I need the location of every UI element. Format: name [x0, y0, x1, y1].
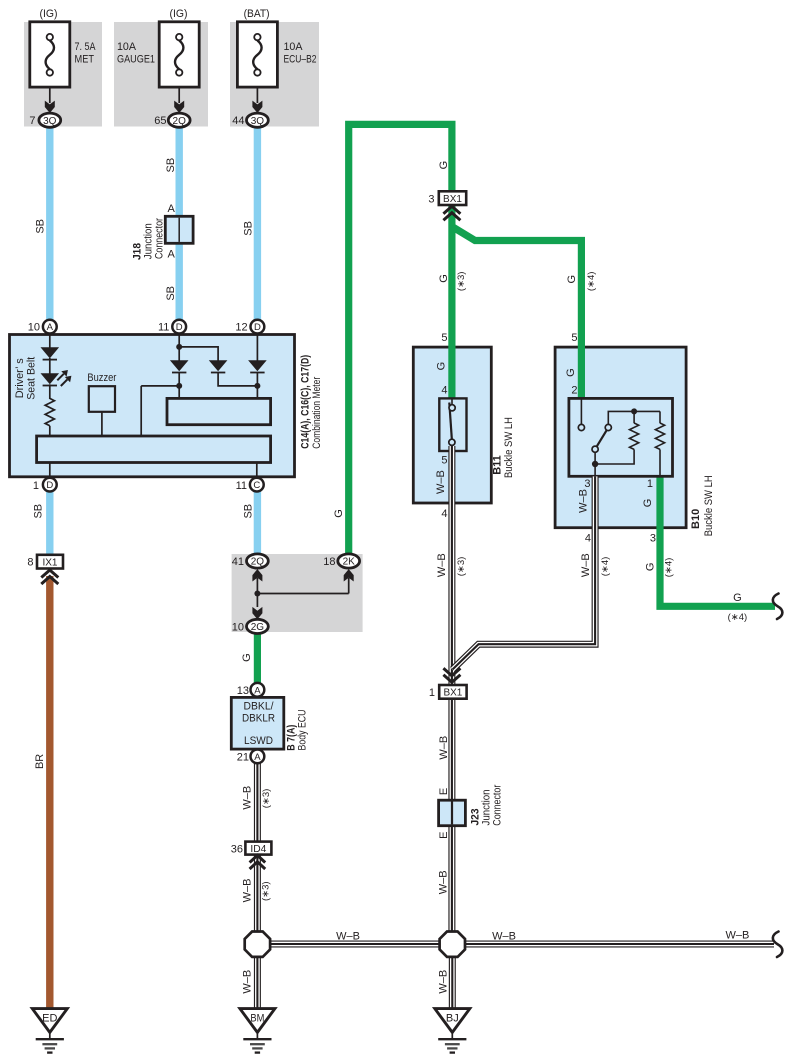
svg-text:G: G — [438, 161, 450, 170]
svg-text:LSWD: LSWD — [244, 735, 273, 747]
pin number 7 — [29, 115, 35, 127]
svg-text:2K: 2K — [343, 557, 356, 568]
svg-text:BM: BM — [250, 1012, 264, 1024]
svg-text:Buckle SW LH: Buckle SW LH — [503, 417, 515, 478]
node octagon 1 — [245, 932, 270, 957]
svg-text:G: G — [733, 592, 742, 604]
pin number 36 — [231, 843, 243, 855]
svg-text:4: 4 — [441, 508, 447, 520]
wire G branch to buckle switch B10 pin 2 — [452, 227, 582, 400]
svg-text:G: G — [241, 653, 253, 662]
label W-B above octagon 2 — [438, 870, 450, 894]
label Driver's Seat Belt — [14, 357, 37, 400]
svg-text:SB: SB — [243, 504, 255, 519]
pin number 4 below B10 — [585, 533, 591, 545]
pin number 21 — [237, 751, 249, 763]
svg-text:GAUGE1: GAUGE1 — [117, 54, 155, 66]
svg-text:21: 21 — [237, 751, 249, 763]
label G wire 2K — [333, 509, 345, 518]
svg-text:(∗4): (∗4) — [664, 558, 675, 578]
label DBKL DBKLR LSWD — [242, 701, 275, 748]
svg-text:B11: B11 — [492, 455, 504, 475]
connector 3Q oval fuse F3 — [247, 113, 269, 127]
label W-B (*3) above ID4 — [242, 786, 273, 810]
wire G from connector 2K up and over to connector BX1 pin 3 — [349, 124, 452, 554]
label 7.5A MET — [75, 41, 97, 66]
diode D1 seat belt lamp — [41, 347, 60, 373]
pin number 41 — [232, 556, 244, 568]
ground ED — [32, 1009, 67, 1053]
label A above J18 — [167, 203, 175, 215]
pin number 3 BX1 — [428, 193, 434, 205]
svg-text:B 7(A): B 7(A) — [285, 724, 297, 750]
wire SB from fuse MET to combination meter pin 10 — [46, 127, 53, 320]
svg-text:1: 1 — [429, 687, 435, 699]
svg-text:18: 18 — [323, 556, 335, 568]
junction connector J23 — [439, 800, 466, 826]
label (BAT) fuse F3 — [244, 8, 270, 20]
svg-text:D: D — [176, 322, 183, 333]
svg-text:36: 36 — [231, 843, 243, 855]
wire G from B10 pin 1 to right edge — [660, 476, 775, 606]
wire SB from fuse ECU-B2 to combination meter pin 12 — [254, 127, 261, 320]
svg-text:(∗4): (∗4) — [728, 612, 748, 623]
pin 21 A circle — [251, 750, 265, 764]
label W-B horizontal right — [725, 930, 749, 942]
svg-text:3Q: 3Q — [43, 116, 57, 127]
svg-text:(∗4): (∗4) — [586, 272, 597, 292]
wire W-B horizontal from node octagon 2 to right edge — [463, 941, 774, 948]
svg-text:G: G — [642, 499, 654, 508]
svg-text:10A: 10A — [117, 41, 137, 53]
svg-text:BX1: BX1 — [443, 688, 462, 699]
label C14 C16 C17 Combination Meter — [300, 355, 324, 449]
svg-text:2Q: 2Q — [251, 557, 265, 568]
label 10A ECU-B2 — [284, 41, 317, 66]
junction internal wiring 2Q to 2K to 2G — [252, 569, 353, 619]
pin number 5 B10 — [571, 332, 577, 344]
chevron below IX1 — [41, 570, 58, 584]
svg-text:Combination Meter: Combination Meter — [311, 377, 323, 449]
svg-text:G: G — [436, 362, 448, 371]
meter internal module box — [167, 398, 271, 424]
svg-text:G: G — [333, 509, 345, 518]
pin number 12 meter — [235, 322, 247, 334]
B11 switch inner box — [439, 398, 466, 451]
pin 11 C circle — [250, 478, 264, 492]
wire G from BX1 chevron down to B11 switch — [448, 206, 455, 400]
svg-text:W–B: W–B — [438, 970, 450, 994]
svg-text:A: A — [254, 685, 261, 696]
pin number 1 B10 inner — [647, 478, 653, 490]
wire BR from IX1 to ground ED — [46, 576, 53, 1009]
svg-text:2G: 2G — [251, 622, 265, 633]
label W-B below octagon 1 — [241, 970, 253, 994]
pin 12 D circle — [251, 320, 265, 334]
wire W-B from B10 pin 3 joining B11 wire — [453, 476, 596, 669]
svg-text:5: 5 — [441, 455, 447, 467]
svg-text:G: G — [438, 274, 450, 283]
B11 switch contacts SW1 — [449, 400, 455, 446]
wire inside meter pin10 to diode — [49, 334, 51, 348]
svg-text:W–B: W–B — [241, 970, 253, 994]
label W-B inside B11 — [435, 470, 447, 494]
fuse block GAUGE1 gray panel — [114, 22, 208, 127]
wire W-B from body ECU pin 21 through ID4 to node octagon 1 — [254, 763, 261, 933]
svg-text:Body ECU: Body ECU — [297, 709, 309, 750]
label Buzzer — [87, 372, 116, 384]
label SB below meter pin1 — [33, 504, 45, 519]
svg-text:13: 13 — [237, 685, 249, 697]
svg-text:G: G — [565, 368, 577, 377]
wire break symbol W-B right — [773, 932, 783, 958]
svg-text:3: 3 — [650, 533, 656, 545]
wire SB from meter pin 11C to connector 2Q — [254, 491, 261, 555]
svg-text:W–B: W–B — [492, 931, 516, 943]
svg-text:Buzzer: Buzzer — [87, 372, 116, 384]
svg-text:(∗3): (∗3) — [456, 272, 467, 292]
label B10 Buckle SW LH — [690, 475, 715, 536]
svg-text:3Q: 3Q — [251, 116, 265, 127]
svg-text:MET: MET — [75, 54, 95, 66]
svg-text:1: 1 — [33, 480, 39, 492]
junction connector J18 — [165, 216, 193, 243]
B10 switch SW2 and resistors — [578, 400, 664, 477]
body ECU B7 box — [231, 697, 283, 749]
pin number 3 B10 inner — [584, 478, 590, 490]
svg-text:E: E — [438, 832, 450, 839]
pin number 11 meter — [158, 322, 169, 334]
label G above BX1 — [438, 161, 450, 170]
label SB wire 2 below J18 — [165, 286, 177, 301]
label (IG) fuse F2 — [170, 8, 188, 20]
svg-text:ECU–B2: ECU–B2 — [284, 54, 317, 66]
svg-text:W–B: W–B — [436, 553, 448, 577]
ground BJ — [435, 1009, 470, 1053]
label J23 Junction Connector — [470, 784, 504, 825]
node octagon 2 — [440, 932, 465, 957]
wire break symbol green right — [773, 594, 783, 620]
wire internal vertical branch — [140, 386, 142, 437]
svg-text:C: C — [253, 480, 260, 491]
buckle switch B10 box — [555, 347, 686, 528]
svg-text:DBKLR: DBKLR — [242, 713, 275, 725]
svg-text:IX1: IX1 — [42, 557, 57, 568]
label W-B horizontal 1 — [336, 931, 360, 943]
label SB wire 3 — [243, 221, 255, 236]
pin number 10 meter — [28, 322, 40, 334]
svg-text:W–B: W–B — [242, 786, 254, 810]
wire SB from meter pin 1 to connector IX1 — [46, 491, 53, 556]
label W-B below octagon 2 — [438, 970, 450, 994]
svg-text:W–B: W–B — [438, 870, 450, 894]
svg-text:2Q: 2Q — [173, 116, 187, 127]
node junction dot under D3 — [176, 383, 182, 389]
pin 13 A circle — [251, 683, 265, 697]
connector BX1 pin 3 — [439, 191, 466, 205]
wire G from connector 2G to body ECU pin 13 — [254, 633, 261, 684]
svg-text:Driver’ s: Driver’ s — [14, 358, 26, 398]
connector 2Q oval fuse F2 — [168, 113, 190, 127]
connector 10 2G oval — [247, 619, 269, 633]
connector BX1 pin 1 — [439, 685, 466, 699]
label W-B (*3) below B11 — [436, 553, 467, 577]
svg-text:Seat Belt: Seat Belt — [25, 357, 37, 400]
pin number 1 meter bottom — [33, 480, 39, 492]
chevron below ID4 — [250, 855, 266, 869]
pin number 2 B10 — [571, 385, 577, 397]
wire internal horizontal branch — [141, 385, 179, 387]
svg-text:44: 44 — [232, 115, 244, 127]
pin number 1 BX1 — [429, 687, 435, 699]
svg-text:BJ: BJ — [446, 1012, 459, 1024]
fuse F3 10A ECU-B2 — [237, 22, 277, 113]
wire bus to pin 11C — [256, 463, 258, 479]
svg-text:A: A — [47, 322, 54, 333]
pin number 65 — [154, 115, 166, 127]
svg-text:3: 3 — [428, 193, 434, 205]
svg-text:W–B: W–B — [580, 553, 592, 577]
junction gray panel 2Q 2K 2G — [232, 554, 363, 632]
fuse block MET gray panel — [24, 22, 102, 127]
svg-text:41: 41 — [232, 556, 244, 568]
label B7A Body ECU — [285, 709, 308, 750]
label W-B inside B10 — [578, 489, 590, 513]
svg-text:G: G — [644, 563, 656, 572]
wire bus to pin 1D — [49, 463, 51, 479]
svg-text:7: 7 — [29, 115, 35, 127]
svg-text:4: 4 — [585, 533, 591, 545]
svg-text:D: D — [46, 480, 53, 491]
meter internal bus box — [37, 436, 271, 463]
svg-text:7. 5A: 7. 5A — [75, 41, 97, 53]
pin number 5 B11 switch bottom — [441, 455, 447, 467]
svg-text:(IG): (IG) — [170, 8, 188, 20]
pin number 10 2G — [232, 621, 244, 633]
svg-text:C14(A), C16(C), C17(D): C14(A), C16(C), C17(D) — [300, 355, 312, 449]
node junction dot top — [176, 344, 182, 350]
svg-text:4: 4 — [441, 385, 447, 397]
resistor R1 in meter — [45, 398, 54, 425]
connector 18 2K oval — [338, 554, 360, 568]
combination meter U1 box — [10, 335, 295, 477]
wire W-B from B11 switch through BX1 pin 1 and J23 to node octagon 2 — [448, 446, 455, 932]
label W-B horizontal 2 — [492, 931, 516, 943]
ground BM — [240, 1009, 275, 1053]
diode D4 — [209, 360, 258, 386]
svg-text:A: A — [254, 752, 261, 763]
connector 3Q oval fuse F1 — [39, 113, 61, 127]
pin 1 D circle — [43, 478, 57, 492]
svg-text:3: 3 — [584, 478, 590, 490]
pin number 5 B11 — [441, 332, 447, 344]
wire buzzer to internal bus — [101, 412, 103, 437]
svg-text:ID4: ID4 — [250, 844, 266, 855]
pin 11 D circle — [172, 320, 186, 334]
node junction dot under D5 — [254, 383, 260, 389]
svg-text:W–B: W–B — [336, 931, 360, 943]
wire branch to diode D4 — [179, 347, 218, 361]
label W-B (*4) below B10 — [580, 553, 611, 577]
svg-text:BX1: BX1 — [443, 194, 462, 205]
svg-text:W–B: W–B — [438, 736, 450, 760]
svg-text:11: 11 — [158, 322, 169, 334]
svg-text:SB: SB — [165, 286, 177, 301]
svg-text:Buckle SW LH: Buckle SW LH — [703, 475, 715, 536]
pin number 3 below B10 — [650, 533, 656, 545]
diode D3 — [170, 360, 189, 398]
svg-text:SB: SB — [33, 504, 45, 519]
svg-text:BR: BR — [34, 754, 46, 769]
label G inside B11 — [436, 362, 448, 371]
svg-text:SB: SB — [165, 158, 177, 173]
label J18 Junction Connector — [132, 218, 166, 260]
label 10A GAUGE1 — [117, 41, 155, 66]
buzzer box — [89, 386, 115, 412]
pin number 11 meter bottom — [236, 480, 247, 492]
buckle switch B11 box — [413, 347, 491, 503]
wire SB from J18 to combination meter pin 11 — [175, 243, 182, 320]
svg-text:(BAT): (BAT) — [244, 8, 270, 20]
svg-text:B10: B10 — [690, 509, 702, 529]
svg-text:W–B: W–B — [435, 470, 447, 494]
wire pin 11D into meter — [178, 334, 180, 361]
label W-B (*3) below ID4 — [241, 878, 271, 902]
fuse block ECU-B2 gray panel — [230, 22, 319, 127]
svg-text:A: A — [167, 249, 175, 261]
svg-text:J18: J18 — [132, 243, 144, 260]
chevron below BX1 pin 3 — [443, 206, 460, 220]
wire resistor to internal bus — [49, 426, 51, 437]
label G wire 2G to ECU — [241, 653, 253, 662]
svg-text:W–B: W–B — [725, 930, 749, 942]
label SB wire 1 — [34, 219, 46, 234]
svg-text:11: 11 — [236, 480, 247, 492]
pin 10 A circle — [43, 320, 57, 334]
svg-text:12: 12 — [235, 322, 247, 334]
wire SB from fuse GAUGE1 to J18 — [175, 127, 182, 218]
wire W-B from node octagon 1 to ground BM — [254, 956, 261, 1009]
LED D2 seat belt indicator — [41, 370, 72, 399]
label G inside B10 — [565, 368, 577, 377]
svg-text:A: A — [167, 203, 175, 215]
B10 inner circuit box — [569, 398, 673, 476]
label W-B above J23 — [438, 736, 450, 760]
connector IX1 pin 8 — [37, 555, 63, 569]
svg-text:65: 65 — [154, 115, 166, 127]
pin number 13 — [237, 685, 249, 697]
svg-text:(∗3): (∗3) — [261, 881, 272, 901]
label G (*4) green horizontal right — [728, 592, 748, 623]
pin number 4 below B11 — [441, 508, 447, 520]
label G (*4) wire to B10 — [566, 272, 597, 292]
svg-text:1: 1 — [647, 478, 653, 490]
svg-text:DBKL/: DBKL/ — [244, 701, 275, 713]
fuse F2 10A GAUGE1 — [159, 22, 199, 113]
svg-text:5: 5 — [571, 332, 577, 344]
label B11 Buckle SW LH — [492, 417, 515, 478]
chevron above BX1 pin 1 — [443, 668, 460, 682]
pin number 44 — [232, 115, 244, 127]
pin number 8 IX1 — [27, 557, 33, 569]
svg-text:(IG): (IG) — [40, 8, 58, 20]
svg-text:2: 2 — [571, 385, 577, 397]
svg-text:(∗3): (∗3) — [456, 557, 467, 577]
pin number 4 B11 — [441, 385, 447, 397]
label BR wire — [34, 754, 46, 769]
connector ID4 pin 36 — [245, 842, 271, 855]
label SB below meter pin11 — [243, 504, 255, 519]
label G inside B10 right — [642, 499, 654, 508]
connector 41 2Q oval — [247, 554, 269, 568]
svg-text:(∗4): (∗4) — [600, 557, 611, 577]
svg-text:SB: SB — [243, 221, 255, 236]
diode D5 — [248, 334, 267, 398]
label G (*3) wire to B11 — [438, 272, 467, 292]
svg-text:Connector: Connector — [492, 784, 504, 825]
svg-text:G: G — [566, 275, 578, 284]
svg-text:W–B: W–B — [241, 878, 253, 902]
svg-text:ED: ED — [42, 1012, 57, 1024]
svg-text:8: 8 — [27, 557, 33, 569]
label A below J18 — [167, 249, 175, 261]
svg-text:10A: 10A — [284, 41, 304, 53]
wire W-B from node octagon 2 to ground BJ — [449, 956, 456, 1009]
label SB wire 2 — [165, 158, 177, 173]
svg-text:Connector: Connector — [154, 218, 166, 259]
svg-text:SB: SB — [34, 219, 46, 234]
label E below J23 — [438, 832, 450, 839]
fuse F1 7.5A MET — [30, 22, 70, 113]
label E above J23 — [438, 788, 450, 795]
pin number 18 — [323, 556, 335, 568]
wire W-B horizontal from node octagon 1 to node octagon 2 — [268, 941, 442, 948]
label (IG) fuse F1 — [40, 8, 58, 20]
svg-text:D: D — [254, 322, 261, 333]
svg-text:10: 10 — [28, 322, 40, 334]
svg-text:5: 5 — [441, 332, 447, 344]
svg-text:(∗3): (∗3) — [261, 789, 272, 809]
svg-text:10: 10 — [232, 621, 244, 633]
label G (*4) green below B10 — [644, 558, 674, 578]
svg-text:W–B: W–B — [578, 489, 590, 513]
svg-text:E: E — [438, 788, 450, 795]
